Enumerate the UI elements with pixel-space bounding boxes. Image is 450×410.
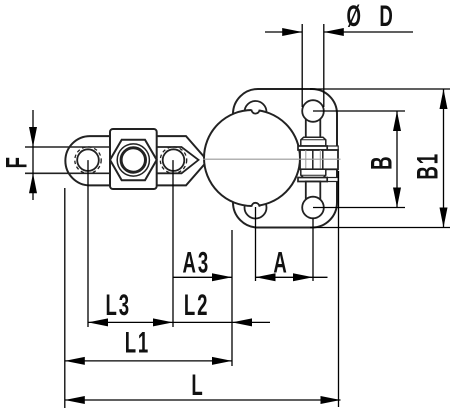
svg-text:L2: L2 — [184, 289, 209, 323]
svg-text:L3: L3 — [105, 289, 130, 323]
svg-text:B: B — [365, 155, 399, 170]
svg-text:F: F — [0, 155, 34, 168]
svg-text:Ø: Ø — [346, 0, 362, 33]
svg-text:L1: L1 — [125, 326, 150, 360]
svg-text:A: A — [273, 246, 288, 280]
svg-text:A3: A3 — [183, 246, 210, 280]
svg-text:B1: B1 — [411, 152, 445, 179]
svg-text:D: D — [379, 0, 394, 33]
svg-text:L: L — [191, 369, 204, 403]
